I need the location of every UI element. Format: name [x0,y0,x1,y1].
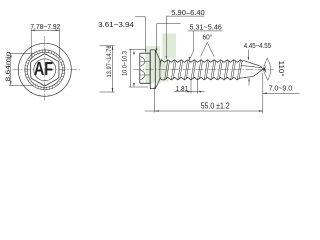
flange outer circle [18,43,71,96]
svg-text:10.0~10.3: 10.0~10.3 [122,51,129,76]
centerline horizontal front view [13,69,82,71]
hex head side view outline [140,53,150,83]
drill point flute top curve [243,60,263,69]
centerline vertical front view [44,36,46,103]
dim 4.45~4.55 arrows lines [247,50,250,86]
svg-text:110°: 110° [277,61,285,77]
dim 8.64min extension lines [9,53,34,85]
helix lines [160,60,242,80]
AF marking [34,58,53,79]
dim 1.81 lines [174,91,205,93]
hexagon front view [31,54,59,86]
serration circle outer [25,50,65,90]
arrows 1.81 [187,91,191,93]
arrow 3.61 leader on flange top [156,49,157,52]
arrows 10.0 dim [133,50,135,54]
dim 10.0~10.3 line [129,50,131,88]
drill point cutting lip line [241,65,262,67]
highlight patch upper shank start [162,34,176,59]
60 deg annotation legs [201,42,214,56]
drill point bottom edge [240,69,263,78]
washer cone to shank [155,50,160,89]
thread bottom zigzag [160,77,241,80]
110 deg arc [267,58,271,81]
arrowheads [10,30,267,112]
dim 13.97~14.78 line [112,46,114,92]
arrow 5.31 leader [189,57,191,61]
arrowheads at drill tip for 110 deg lines [263,66,266,70]
highlight patch lower shank start [160,58,168,81]
arrows 7.78 dim [31,30,35,32]
svg-text:8.64min: 8.64min [5,51,12,81]
arrow 5.90 leader [166,56,167,59]
hex side face division lines [140,61,150,75]
thread top zigzag [160,60,243,63]
dim 55.0 extension line left [154,87,156,113]
svg-text:AF: AF [34,58,53,79]
svg-text:1.81: 1.81 [176,84,189,93]
svg-text:7.78~7.92: 7.78~7.92 [30,24,60,31]
110 deg lines from tip [263,58,268,81]
arrows 4.45 dim [248,57,249,60]
svg-text:4.45~4.55: 4.45~4.55 [244,43,271,50]
serration circle inner [27,52,62,87]
svg-text:55.0 ±1.2: 55.0 ±1.2 [201,101,230,110]
dim 13.97~14.78 extension lines [100,46,115,92]
washer flange side view [150,50,155,89]
svg-text:7.0~9.0: 7.0~9.0 [269,84,292,93]
svg-text:5.31~5.46: 5.31~5.46 [190,23,222,32]
svg-text:13.97~14.78: 13.97~14.78 [106,45,113,77]
highlight patch over head side view [145,46,160,83]
arrows 55.0 [155,110,159,112]
dim 7.0~9.0 line [263,92,300,94]
dim 7.78~7.92 line [31,29,59,31]
hex inscribed circle [34,59,56,81]
callout 5.31~5.46 leader [188,31,223,59]
callout 5.90-6.40 leader [166,16,204,58]
dim 55.0 line [145,110,263,112]
svg-text:60°: 60° [203,33,213,41]
svg-text:3.61~3.94: 3.61~3.94 [98,22,134,29]
svg-text:5.90–6.40: 5.90–6.40 [171,8,204,17]
dim 1.81 extension lines [191,79,198,94]
dim 3.61~3.94 leader to hex top [135,17,180,52]
dim 7.0~9.0 extension line [262,73,264,114]
dim 8.64min line [10,53,12,85]
serration ticks [25,50,65,90]
arrows 8.64 dim [10,53,12,57]
centerline screw axis [133,69,274,71]
arrows 13.97 dim [112,46,114,50]
dim 10.0~10.3 extension lines [129,50,148,88]
arrow 3.61 leader on hex top [145,50,146,53]
dim 7.78~7.92 extension lines [31,29,59,58]
hex side chamfer arcs [140,56,145,79]
arrow 7.0~9.0 [263,93,267,95]
